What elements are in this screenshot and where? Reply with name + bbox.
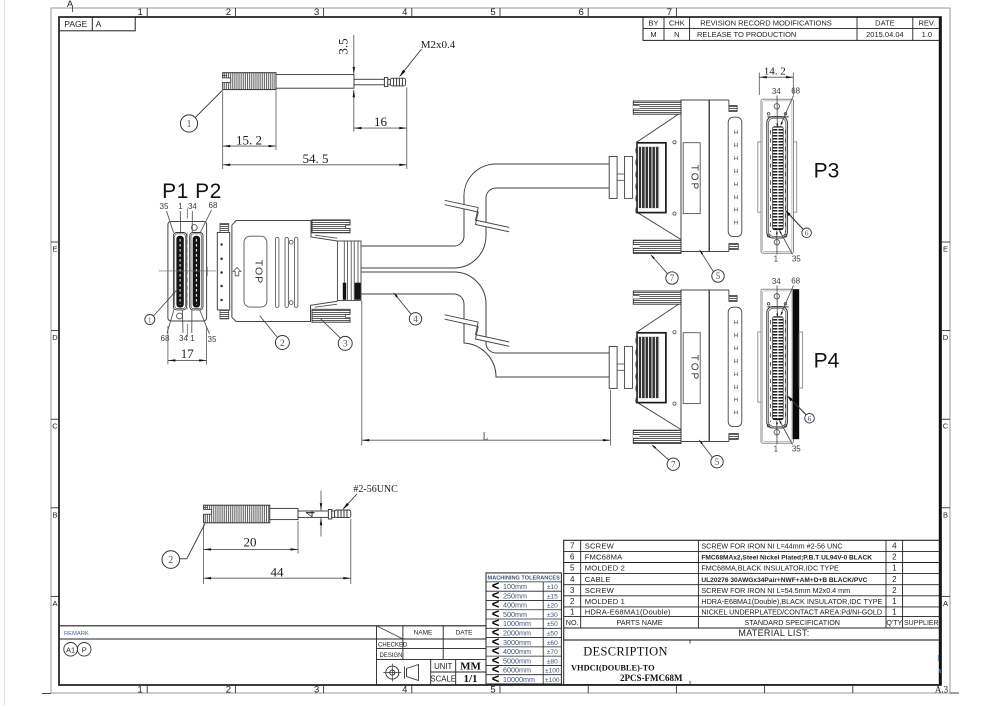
svg-text:H: H: [734, 143, 738, 149]
svg-text:2: 2: [226, 7, 231, 18]
svg-text:H: H: [734, 333, 738, 339]
svg-text:2: 2: [280, 339, 285, 349]
svg-text:4000mm: 4000mm: [503, 647, 531, 656]
svg-text:6: 6: [579, 7, 584, 18]
svg-text:BY: BY: [648, 19, 658, 28]
svg-text:2: 2: [892, 553, 897, 562]
svg-text:NO.: NO.: [566, 618, 579, 627]
svg-text:TOP: TOP: [689, 165, 700, 191]
svg-text:1: 1: [138, 684, 143, 695]
svg-text:35: 35: [208, 335, 217, 344]
svg-text:M: M: [650, 30, 656, 39]
svg-text:A: A: [96, 19, 102, 29]
svg-text:1: 1: [138, 7, 143, 18]
svg-text:REVISION RECORD MODIFICATION: REVISION RECORD MODIFICATIONS: [700, 19, 832, 28]
svg-text:2000mm: 2000mm: [503, 629, 531, 638]
svg-text:D: D: [52, 333, 58, 342]
svg-text:34: 34: [188, 202, 197, 211]
svg-text:NAME: NAME: [414, 630, 433, 637]
svg-text:1: 1: [190, 334, 195, 343]
svg-text:1: 1: [892, 564, 897, 573]
svg-text:35: 35: [792, 255, 801, 264]
svg-text:H: H: [734, 130, 738, 136]
svg-text:68: 68: [161, 334, 170, 343]
svg-text:VHDCI(DOUBLE)-TO: VHDCI(DOUBLE)-TO: [571, 664, 655, 673]
svg-text:44: 44: [271, 564, 285, 579]
svg-text:H: H: [734, 372, 738, 378]
svg-text:DATE: DATE: [875, 19, 894, 28]
svg-text:2: 2: [892, 586, 897, 595]
svg-text:#2-56UNC: #2-56UNC: [353, 484, 398, 495]
svg-text:REV.: REV.: [918, 19, 935, 28]
svg-text:7: 7: [570, 541, 575, 550]
svg-text:±15: ±15: [547, 593, 558, 600]
svg-text:2: 2: [226, 684, 231, 695]
svg-text:1000mm: 1000mm: [503, 619, 531, 628]
svg-text:1: 1: [187, 119, 192, 130]
svg-text:DESIGN: DESIGN: [380, 653, 403, 659]
svg-text:H: H: [734, 169, 738, 175]
svg-text:10000mm: 10000mm: [503, 675, 535, 684]
svg-text:7: 7: [671, 459, 676, 469]
svg-text:FMC68MA: FMC68MA: [585, 553, 623, 562]
svg-text:17: 17: [181, 346, 195, 361]
svg-text:±50: ±50: [547, 621, 558, 628]
svg-text:HDRA-E68MA1(Double),BLACK INS: HDRA-E68MA1(Double),BLACK INSULATOR,IDC …: [701, 597, 882, 606]
svg-text:5: 5: [716, 271, 721, 281]
svg-text:CABLE: CABLE: [585, 575, 611, 584]
svg-text:1: 1: [774, 445, 779, 454]
svg-text:RELEASE TO PRODUCTION: RELEASE TO PRODUCTION: [697, 30, 796, 39]
svg-text:A1: A1: [66, 645, 75, 654]
svg-text:MM: MM: [460, 661, 481, 673]
svg-text:5: 5: [570, 564, 575, 573]
svg-text:TOP: TOP: [252, 260, 264, 284]
svg-text:SCREW: SCREW: [585, 586, 615, 595]
svg-text:100mm: 100mm: [503, 582, 527, 591]
svg-text:6: 6: [570, 553, 575, 562]
svg-text:6: 6: [808, 414, 812, 423]
svg-text:N: N: [674, 30, 679, 39]
svg-text:C: C: [943, 422, 949, 431]
svg-text:2: 2: [570, 597, 575, 606]
svg-text:2PCS-FMC68M: 2PCS-FMC68M: [620, 673, 683, 683]
svg-text:±50: ±50: [547, 631, 558, 638]
svg-text:1: 1: [178, 202, 183, 211]
svg-text:REMARK: REMARK: [64, 631, 89, 637]
svg-text:SCREW FOR IRON NI L=44mm: SCREW FOR IRON NI L=44mm #2-56 UNC: [701, 541, 842, 550]
svg-text:5: 5: [490, 7, 495, 18]
svg-text:MOLDED 1: MOLDED 1: [585, 597, 625, 606]
svg-text:3: 3: [314, 684, 319, 695]
svg-text:CHK: CHK: [669, 19, 685, 28]
svg-text:H: H: [734, 411, 738, 417]
svg-text:D: D: [943, 333, 949, 342]
svg-text:UNIT: UNIT: [434, 662, 452, 671]
svg-text:H: H: [734, 398, 738, 404]
svg-text:P1 P2: P1 P2: [162, 180, 222, 203]
svg-text:M2x0.4: M2x0.4: [421, 39, 456, 51]
svg-text:3: 3: [314, 7, 319, 18]
svg-text:±100: ±100: [545, 677, 560, 684]
svg-text:SCALE: SCALE: [430, 674, 456, 683]
svg-text:B: B: [52, 510, 57, 519]
svg-text:A: A: [52, 599, 57, 608]
svg-text:FMC68MAx2,Steel Nickel Plate: FMC68MAx2,Steel Nickel Plated;P.B.T UL94…: [701, 555, 872, 562]
svg-text:MOLDED 2: MOLDED 2: [585, 564, 625, 573]
svg-text:5: 5: [715, 457, 720, 467]
svg-text:34: 34: [772, 87, 781, 96]
svg-text:±60: ±60: [547, 640, 558, 647]
svg-text:1.0: 1.0: [922, 30, 932, 39]
svg-text:H: H: [734, 359, 738, 365]
svg-text:4: 4: [402, 684, 407, 695]
svg-text:4: 4: [570, 575, 575, 584]
svg-text:STANDARD SPECIFICATION: STANDARD SPECIFICATION: [744, 618, 840, 627]
svg-text:±20: ±20: [547, 603, 558, 610]
svg-text:P: P: [82, 645, 87, 654]
svg-text:6000mm: 6000mm: [503, 666, 531, 675]
svg-text:E: E: [52, 245, 57, 254]
svg-text:4: 4: [402, 7, 407, 18]
svg-text:DESCRIPTION: DESCRIPTION: [583, 645, 668, 659]
svg-text:2: 2: [168, 555, 173, 566]
svg-text:68: 68: [791, 86, 800, 95]
svg-text:35: 35: [792, 445, 801, 454]
svg-text:7: 7: [670, 273, 675, 283]
svg-text:H: H: [734, 346, 738, 352]
svg-text:3: 3: [570, 586, 575, 595]
svg-text:35: 35: [160, 202, 169, 211]
svg-text:1/1: 1/1: [463, 673, 477, 685]
svg-text:68: 68: [791, 276, 800, 285]
svg-text:MATERIAL LIST:: MATERIAL LIST:: [738, 628, 809, 638]
svg-text:15. 2: 15. 2: [236, 132, 262, 147]
svg-text:H: H: [734, 156, 738, 162]
svg-text:SCREW FOR IRON NI L=54.5mm: SCREW FOR IRON NI L=54.5mm M2x0.4 mm: [701, 586, 850, 595]
svg-text:DATE: DATE: [456, 630, 474, 637]
svg-text:14. 2: 14. 2: [764, 66, 786, 78]
svg-text:C: C: [52, 422, 58, 431]
svg-text:CHECKED: CHECKED: [378, 642, 408, 648]
svg-text:±10: ±10: [547, 584, 558, 591]
svg-text:Q'TY: Q'TY: [886, 620, 902, 627]
svg-text:4: 4: [303, 510, 318, 517]
svg-text:H: H: [734, 221, 738, 227]
svg-text:H: H: [734, 208, 738, 214]
svg-text:P3: P3: [814, 160, 840, 183]
svg-text:4: 4: [892, 541, 897, 550]
svg-text:HDRA-E68MA1(Double): HDRA-E68MA1(Double): [585, 607, 671, 616]
svg-text:1: 1: [774, 255, 779, 264]
svg-text:250mm: 250mm: [503, 591, 527, 600]
svg-text:5000mm: 5000mm: [503, 656, 531, 665]
svg-text:B: B: [943, 510, 948, 519]
svg-text:3: 3: [343, 340, 348, 350]
svg-text:20: 20: [244, 534, 257, 549]
svg-text:3.5: 3.5: [336, 38, 351, 54]
svg-text:1: 1: [892, 607, 897, 616]
svg-text:±80: ±80: [547, 658, 558, 665]
svg-text:UL20276 30AWGx34Pair+NWF+AM+D: UL20276 30AWGx34Pair+NWF+AM+D+B BLACK/PV…: [701, 577, 867, 584]
svg-text:1: 1: [892, 597, 897, 606]
svg-text:SCREW: SCREW: [585, 541, 615, 550]
svg-text:H: H: [734, 195, 738, 201]
svg-text:NICKEL UNDERPLATED/CONTACT A: NICKEL UNDERPLATED/CONTACT AREA:Pd/NI-GO…: [701, 607, 882, 616]
svg-text:2015.04.04: 2015.04.04: [866, 30, 904, 39]
svg-text:68: 68: [209, 201, 218, 210]
svg-text:5: 5: [490, 684, 495, 695]
svg-text:2: 2: [892, 575, 897, 584]
svg-text:TOP: TOP: [689, 355, 700, 381]
svg-text:P4: P4: [814, 350, 840, 373]
svg-text:E: E: [943, 245, 948, 254]
svg-text:54. 5: 54. 5: [303, 151, 329, 166]
svg-text:±30: ±30: [547, 612, 558, 619]
svg-text:±100: ±100: [545, 668, 560, 675]
svg-text:3000mm: 3000mm: [503, 638, 531, 647]
svg-text:1: 1: [148, 315, 152, 324]
svg-text:PAGE: PAGE: [64, 19, 87, 29]
svg-text:34: 34: [772, 277, 781, 286]
svg-text:A.3: A.3: [935, 685, 949, 695]
svg-text:FMC68MA,BLACK INSULATOR,IDC: FMC68MA,BLACK INSULATOR,IDC TYPE: [701, 564, 839, 573]
svg-text:4: 4: [413, 314, 418, 324]
svg-text:<: <: [492, 671, 500, 686]
svg-text:500mm: 500mm: [503, 610, 527, 619]
svg-text:±70: ±70: [547, 649, 558, 656]
svg-text:400mm: 400mm: [503, 601, 527, 610]
svg-text:SUPPLIER: SUPPLIER: [904, 620, 939, 627]
svg-text:PARTS NAME: PARTS NAME: [617, 618, 663, 627]
svg-text:A: A: [943, 599, 948, 608]
svg-text:H: H: [734, 182, 738, 188]
svg-text:6: 6: [805, 229, 809, 238]
svg-text:L: L: [482, 432, 488, 443]
svg-text:H: H: [734, 385, 738, 391]
svg-text:16: 16: [374, 114, 388, 129]
svg-text:1: 1: [570, 607, 575, 616]
svg-text:H: H: [734, 320, 738, 326]
